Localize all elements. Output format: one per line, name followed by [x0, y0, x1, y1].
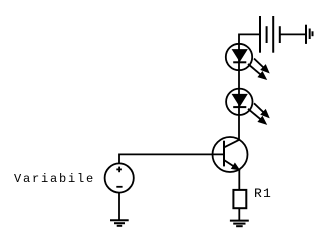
svg-text:R1: R1 — [254, 186, 272, 201]
resistor R1 — [233, 190, 246, 208]
wire: D2 cathode to Q1 collector — [238, 115, 240, 140]
voltage source V1 — [105, 163, 134, 192]
ground (right, horizontal orientation) — [306, 25, 313, 44]
ground (below source) — [110, 220, 129, 226]
wire: LED anode up and right to battery — [239, 34, 260, 43]
battery B1 — [260, 16, 280, 53]
wire: D1 cathode to D2 anode — [238, 70, 240, 88]
wire: base from source corner to Q1 — [119, 154, 224, 163]
wire: battery negative to ground — [280, 33, 306, 35]
transistor Q1 (NPN) — [213, 137, 248, 172]
ground (below R1) — [230, 221, 249, 227]
light arrows D2 — [248, 103, 269, 124]
wire: R1 to ground — [238, 208, 240, 220]
svg-text:Variabile: Variabile — [14, 172, 95, 186]
light arrows D1 — [248, 59, 269, 80]
LED D2 — [226, 89, 252, 115]
wire: Q1 emitter to R1 — [238, 169, 240, 190]
wire: source bottom to ground — [118, 193, 120, 221]
LED D1 — [226, 44, 252, 70]
